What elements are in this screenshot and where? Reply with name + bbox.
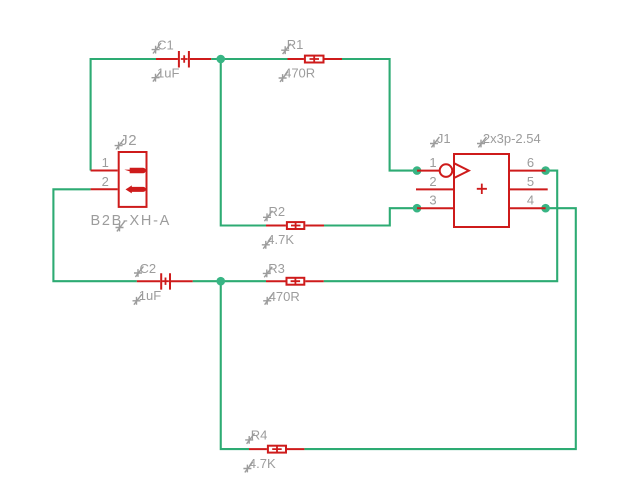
svg-text:2: 2 — [429, 174, 436, 189]
value 4.7K — [243, 456, 276, 473]
label J2 — [115, 132, 138, 149]
svg-text:C2: C2 — [140, 261, 157, 276]
svg-text:6: 6 — [527, 155, 534, 170]
capacitor C2 — [137, 273, 193, 289]
svg-text:R2: R2 — [269, 204, 286, 219]
junction node — [541, 166, 550, 175]
junction node — [216, 55, 225, 64]
svg-text:B2B-XH-A: B2B-XH-A — [91, 213, 171, 229]
svg-text:C1: C1 — [157, 37, 174, 52]
connector J2 — [91, 152, 147, 207]
wire — [221, 281, 249, 449]
svg-text:2: 2 — [102, 174, 109, 189]
svg-text:1uF: 1uF — [139, 288, 161, 303]
value 4.7K — [262, 232, 295, 249]
wire — [324, 171, 558, 282]
wire — [304, 208, 575, 449]
svg-text:470R: 470R — [269, 289, 300, 304]
junction node — [413, 204, 422, 213]
svg-text:R4: R4 — [251, 428, 268, 443]
label R4 — [245, 428, 267, 444]
junction node — [216, 277, 225, 286]
label C1 — [152, 37, 174, 53]
svg-text:1: 1 — [429, 155, 436, 170]
resistor R4 — [249, 446, 304, 453]
svg-text:4.7K: 4.7K — [267, 232, 294, 247]
label R3 — [263, 261, 285, 278]
svg-text:R3: R3 — [268, 261, 285, 276]
svg-text:1: 1 — [102, 155, 109, 170]
junction node — [413, 166, 422, 175]
label C2 — [134, 261, 156, 277]
wire — [221, 59, 266, 226]
svg-text:4: 4 — [527, 193, 534, 208]
label R2 — [263, 204, 285, 221]
label R1 — [281, 37, 303, 54]
svg-text:5: 5 — [527, 174, 534, 189]
wire — [342, 59, 417, 171]
value 470R — [279, 65, 316, 82]
svg-text:2x3p-2.54: 2x3p-2.54 — [483, 131, 541, 146]
value 2x3p-2.54 — [477, 131, 541, 148]
value 470R — [263, 289, 300, 305]
value 1uF — [133, 288, 162, 304]
svg-text:R1: R1 — [287, 37, 304, 52]
value B2B-XH-A — [91, 213, 171, 231]
junction node — [541, 204, 550, 213]
svg-text:1uF: 1uF — [157, 66, 179, 81]
wire — [91, 59, 156, 171]
wire — [53, 189, 136, 281]
capacitor C1 — [156, 51, 211, 68]
svg-text:4.7K: 4.7K — [249, 456, 276, 471]
svg-text:470R: 470R — [284, 65, 315, 80]
connector J1 — [416, 154, 548, 227]
resistor R3 — [266, 278, 324, 285]
wire — [211, 58, 287, 60]
resistor R1 — [288, 56, 343, 63]
resistor R2 — [266, 222, 324, 229]
label J1 — [430, 131, 451, 148]
svg-text:J1: J1 — [437, 131, 451, 146]
value 1uF — [152, 66, 180, 82]
svg-text:3: 3 — [429, 193, 436, 208]
wire — [324, 208, 417, 225]
wire — [193, 280, 266, 282]
svg-text:J2: J2 — [120, 132, 137, 149]
